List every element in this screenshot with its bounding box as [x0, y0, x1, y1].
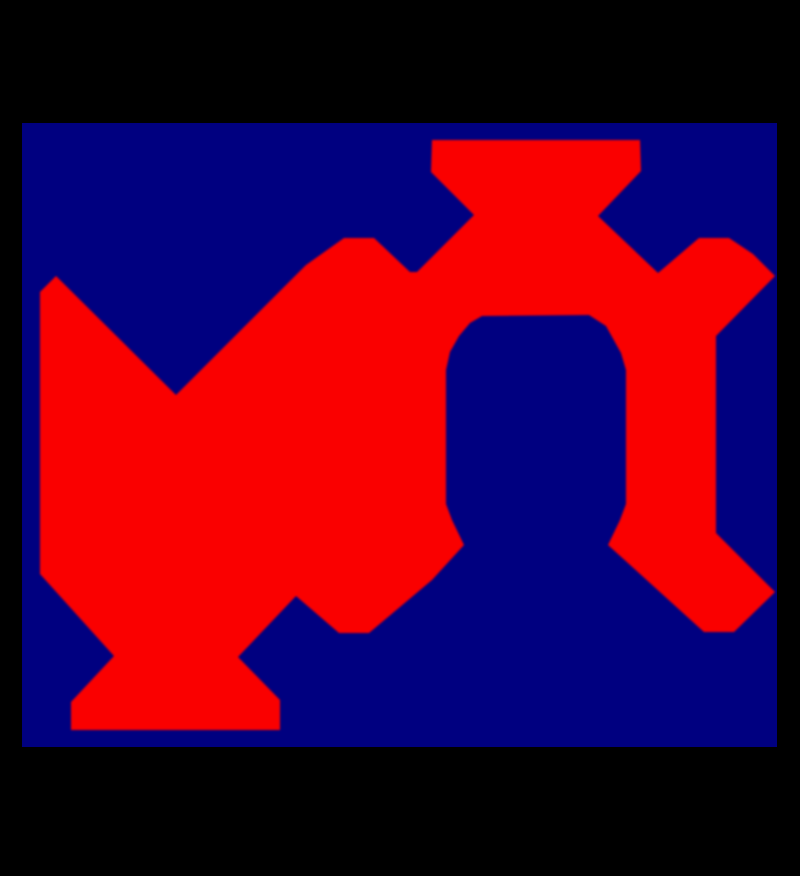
- navy panel: [22, 123, 777, 747]
- red shape: [40, 140, 775, 730]
